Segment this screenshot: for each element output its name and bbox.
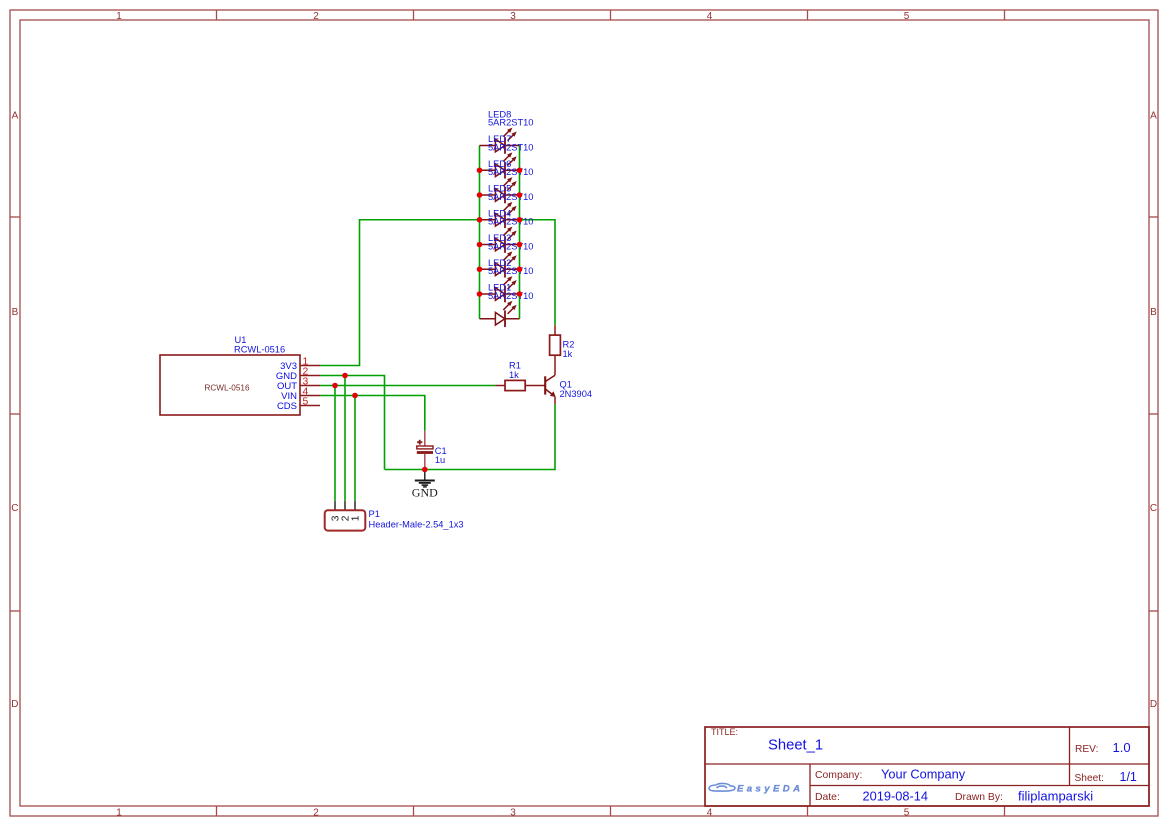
svg-text:3: 3: [510, 807, 516, 818]
svg-text:RCWL-0516: RCWL-0516: [204, 384, 249, 393]
svg-text:Company:: Company:: [815, 770, 862, 781]
svg-text:R2: R2: [563, 340, 575, 350]
U1 pin 1 (3V3): [280, 356, 320, 372]
svg-text:GND: GND: [412, 485, 438, 499]
svg-text:REV:: REV:: [1075, 744, 1098, 755]
resistor R1 1k: [495, 360, 545, 390]
svg-text:5AR2ST10: 5AR2ST10: [488, 266, 533, 276]
wire LED anode rail (left): [479, 146, 481, 319]
svg-text:5: 5: [904, 807, 910, 818]
svg-text:5: 5: [303, 396, 309, 407]
svg-text:5AR2ST10: 5AR2ST10: [488, 118, 533, 128]
wire VIN branch to P1 pin 1: [354, 396, 356, 501]
wire OUT branch to P1 pin 3: [334, 386, 336, 501]
frame column numbers (bottom): [116, 807, 910, 818]
svg-text:5AR2ST10: 5AR2ST10: [488, 142, 533, 152]
U1 pin 2 (GND): [276, 366, 320, 382]
svg-text:1/1: 1/1: [1120, 770, 1137, 784]
junction (355,395.5): [352, 393, 358, 399]
junction (345,375.5): [342, 373, 348, 379]
LED LED2 5AR2ST10: [480, 258, 534, 303]
svg-text:2: 2: [313, 807, 319, 818]
LED LED4 5AR2ST10: [480, 208, 534, 253]
LED LED7 5AR2ST10: [480, 134, 534, 179]
junction (479.5,219.75): [477, 217, 483, 223]
wire OUT pin to resistor R1: [320, 385, 495, 387]
frame row letters (right): [1150, 111, 1157, 710]
title block outline: [705, 727, 1149, 806]
junction (519.5,244.5): [517, 242, 523, 248]
svg-text:A: A: [1150, 111, 1157, 122]
junction (479.5,294.0): [477, 291, 483, 297]
svg-text:Header-Male-2.54_1x3: Header-Male-2.54_1x3: [369, 519, 464, 529]
junction (519.5,170.25): [517, 167, 523, 173]
junction (424.8,469.5): [422, 467, 428, 473]
svg-text:RCWL-0516: RCWL-0516: [234, 344, 285, 354]
svg-text:Q1: Q1: [560, 379, 572, 389]
svg-text:R1: R1: [509, 360, 521, 370]
svg-text:EasyEDA: EasyEDA: [737, 784, 803, 795]
svg-text:filiplamparski: filiplamparski: [1018, 788, 1093, 803]
junction (479.5,269.25): [477, 266, 483, 272]
svg-text:C: C: [1150, 503, 1157, 514]
svg-text:1: 1: [116, 807, 122, 818]
transistor Q1 2N3904 (NPN): [545, 364, 592, 404]
svg-text:Your Company: Your Company: [881, 766, 966, 781]
junction (335,385.5): [332, 383, 338, 389]
LED LED8 5AR2ST10: [480, 109, 534, 154]
ground symbol GND: [412, 470, 438, 500]
junction (479.5,195.0): [477, 192, 483, 198]
svg-text:C: C: [11, 503, 18, 514]
svg-text:5AR2ST10: 5AR2ST10: [488, 241, 533, 251]
EasyEDA logo: [709, 783, 803, 794]
svg-text:D: D: [1150, 699, 1157, 710]
svg-text:2N3904: 2N3904: [560, 389, 593, 399]
U1 pin 4 (VIN): [281, 386, 320, 402]
svg-text:P1: P1: [369, 509, 380, 519]
IC U1 RCWL-0516 body: [160, 355, 300, 415]
svg-text:CDS: CDS: [277, 401, 297, 412]
junction (519.5,219.75): [517, 217, 523, 223]
svg-text:1.0: 1.0: [1113, 740, 1131, 755]
svg-text:5AR2ST10: 5AR2ST10: [488, 217, 533, 227]
wire GND branch to P1 pin 2: [344, 376, 346, 501]
wire ground bus to Q1 emitter: [385, 404, 556, 469]
junction (519.5,294.0): [517, 291, 523, 297]
svg-text:1: 1: [116, 11, 122, 22]
junction (519.5,269.25): [517, 266, 523, 272]
svg-text:Date:: Date:: [815, 792, 840, 803]
U1 pin 3 (OUT): [277, 376, 320, 392]
frame row letters (left): [11, 111, 18, 710]
U1 pin 5 (CDS): [277, 396, 320, 412]
svg-text:5: 5: [904, 11, 910, 22]
junction (519.5,195.0): [517, 192, 523, 198]
svg-text:4: 4: [707, 11, 713, 22]
junction (479.5,244.5): [477, 242, 483, 248]
wire VIN pin to capacitor C1: [320, 396, 425, 431]
svg-text:5AR2ST10: 5AR2ST10: [488, 167, 533, 177]
wire 3V3 pin to LED anode rail: [320, 220, 480, 366]
svg-text:3: 3: [510, 11, 516, 22]
capacitor C1 1u (polarized): [417, 431, 447, 470]
svg-text:Sheet:: Sheet:: [1075, 773, 1104, 784]
svg-text:B: B: [1150, 307, 1157, 318]
svg-text:B: B: [12, 307, 19, 318]
svg-text:1: 1: [350, 515, 361, 521]
wire LED cathode rail (right): [519, 146, 521, 319]
LED LED3 5AR2ST10: [480, 233, 534, 277]
svg-text:4: 4: [707, 807, 713, 818]
svg-text:2019-08-14: 2019-08-14: [863, 788, 928, 803]
svg-text:Drawn By:: Drawn By:: [955, 792, 1003, 803]
svg-text:Sheet_1: Sheet_1: [768, 737, 823, 753]
junction (479.5,170.25): [477, 167, 483, 173]
LED LED1 5AR2ST10: [480, 283, 534, 328]
LED LED6 5AR2ST10: [480, 159, 534, 204]
resistor R2 1k: [550, 325, 575, 364]
svg-text:D: D: [11, 699, 18, 710]
wire GND pin to ground net: [320, 376, 385, 470]
frame column numbers (top): [116, 11, 910, 22]
svg-text:2: 2: [313, 11, 319, 22]
svg-text:A: A: [12, 111, 19, 122]
svg-text:1k: 1k: [563, 349, 573, 359]
svg-text:TITLE:: TITLE:: [711, 727, 738, 737]
connector P1 Header-Male-2.54_1x3: [325, 501, 464, 531]
svg-text:5AR2ST10: 5AR2ST10: [488, 291, 533, 301]
svg-text:1u: 1u: [435, 455, 445, 465]
svg-text:5AR2ST10: 5AR2ST10: [488, 192, 533, 202]
svg-text:1k: 1k: [509, 370, 519, 380]
LED LED5 5AR2ST10: [480, 184, 534, 229]
wire cathode rail to resistor R2: [520, 220, 556, 326]
